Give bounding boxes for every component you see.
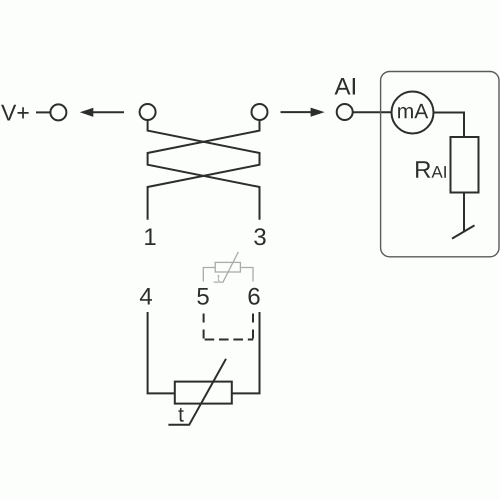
wire V+ stub	[36, 111, 50, 113]
gray thermistor body	[215, 262, 240, 272]
wire crossover path from top-left to pin 1	[148, 120, 260, 219]
mA meter U1	[392, 92, 434, 134]
arrow to AI	[281, 111, 312, 113]
thermistor body	[175, 382, 232, 404]
dashed jumper horizontal wire	[205, 339, 254, 341]
label V+	[1, 105, 29, 121]
mA meter label	[398, 104, 428, 118]
resistor RAI	[451, 137, 479, 193]
terminal circle V+	[50, 104, 66, 120]
terminal circle top-left	[140, 104, 156, 120]
wire from 4 to thermistor	[148, 312, 175, 393]
gray alternate sensor symbol (small thermistor)	[203, 252, 253, 282]
pin label 6	[249, 288, 260, 305]
thermistor diagonal	[168, 359, 226, 425]
gray thermistor right lead	[240, 268, 253, 282]
pin label 4	[140, 288, 152, 305]
dashed jumper wire below 5	[203, 314, 205, 339]
wire resistor down	[463, 193, 465, 232]
wire crossover path from top-right to pin 3	[148, 120, 260, 219]
analog input module box	[381, 72, 499, 257]
gray thermistor diagonal	[214, 252, 239, 282]
dashed jumper wire below 6	[252, 314, 254, 339]
gray thermistor left lead	[203, 268, 215, 282]
wire mA to resistor	[434, 113, 465, 138]
terminal circle top-right	[252, 104, 268, 120]
arrow to V+	[93, 111, 124, 113]
chassis slash	[452, 225, 475, 238]
label AI	[335, 78, 356, 95]
pin label 3	[254, 228, 265, 245]
wire from 6 to thermistor	[232, 312, 260, 393]
terminal circle AI	[337, 104, 353, 120]
pin label 5	[197, 288, 208, 305]
label RAI	[416, 161, 446, 178]
pin label 1	[145, 229, 155, 246]
gray thermistor t label	[217, 275, 220, 282]
thermistor t label	[178, 408, 183, 422]
wire AI to mA meter	[353, 111, 392, 113]
